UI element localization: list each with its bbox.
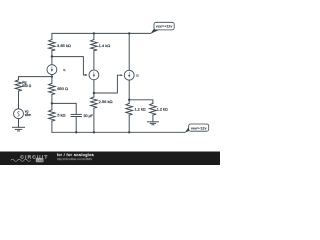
node rail col2 xyxy=(93,131,95,133)
wire col3 below F2 xyxy=(128,80,130,103)
footer bar xyxy=(0,152,220,166)
footer logo LAB xyxy=(36,158,44,162)
svg-text:5 kΩ: 5 kΩ xyxy=(57,113,65,118)
node col1 left join xyxy=(51,76,53,78)
resistor R6 1.2k zigzag xyxy=(126,103,133,115)
wire col1 650 to junction xyxy=(51,95,53,110)
voltage source V1 vg sine circle xyxy=(14,109,24,119)
wire bottom rail xyxy=(52,131,185,133)
node rail col3 xyxy=(128,131,130,133)
wire top rail xyxy=(52,33,150,39)
wire col2 bottom xyxy=(93,108,95,132)
ground under vg xyxy=(13,127,25,131)
svg-text:1.2 kΩ: 1.2 kΩ xyxy=(157,107,168,111)
svg-text:vee=-12v: vee=-12v xyxy=(191,126,208,130)
wire col2 below F1 xyxy=(93,80,95,97)
node col1 cap tap xyxy=(51,102,53,104)
wire col2 R2 to F1 xyxy=(93,51,95,70)
wire cap bottom xyxy=(75,117,77,133)
wire col2 top xyxy=(93,33,95,39)
svg-text:1.2 kΩ: 1.2 kΩ xyxy=(135,107,146,111)
wire R7 to ground xyxy=(152,115,154,122)
wire left branch horizontal xyxy=(19,77,52,80)
arrowhead into F2 xyxy=(121,74,123,76)
dependent source F2 circle xyxy=(124,70,134,80)
sine squiggle inside V1 xyxy=(18,111,20,116)
node rail cap xyxy=(75,131,77,133)
resistor R3 650 zigzag xyxy=(49,83,56,94)
node top col3 xyxy=(128,32,130,34)
wire col1 R1 to I1 xyxy=(51,51,53,65)
wire control path to F1 xyxy=(52,57,86,75)
junction dots xyxy=(51,32,131,133)
resistor R7 1.2k zigzag xyxy=(150,103,157,115)
flag vee=-12v xyxy=(185,124,209,133)
wire col1 below I1 xyxy=(51,75,53,84)
node top col2 xyxy=(93,32,95,34)
resistor Rg 600 zigzag xyxy=(15,80,22,91)
svg-text:LAB: LAB xyxy=(37,159,44,163)
wire Rg to vg xyxy=(18,91,20,109)
flag vcc=+12v xyxy=(150,22,174,34)
arrow inside F2 xyxy=(128,72,130,78)
wire col1 bottom xyxy=(51,121,53,132)
wire control path to F2 xyxy=(94,75,121,93)
arrowhead into F1 xyxy=(85,74,87,76)
dependent source F1 circle xyxy=(89,70,99,80)
ground under R7 xyxy=(147,122,158,125)
svg-text:50 µF: 50 µF xyxy=(84,114,94,118)
svg-text:i1: i1 xyxy=(63,68,66,72)
capacitor C1 50uF plates xyxy=(71,114,81,116)
wire vg to ground xyxy=(18,119,20,128)
resistor R1 3.85k zigzag xyxy=(49,40,56,51)
resistor R4 5k zigzag xyxy=(49,110,56,121)
svg-text:2.56 kΩ: 2.56 kΩ xyxy=(99,99,113,104)
node col3 below F2 xyxy=(128,99,130,101)
svg-text:i3: i3 xyxy=(136,74,139,78)
arrow inside F1 xyxy=(93,72,95,78)
svg-text:650 Ω: 650 Ω xyxy=(57,86,68,91)
footer logo squiggle xyxy=(11,159,31,161)
wire col3 top xyxy=(128,33,130,70)
resistor R5 2.56k zigzag xyxy=(91,97,98,108)
svg-text:600 Ω: 600 Ω xyxy=(22,84,31,88)
svg-text:3.85 kΩ: 3.85 kΩ xyxy=(57,43,71,48)
svg-text:vcc=+12v: vcc=+12v xyxy=(156,25,174,29)
wire col4 top link xyxy=(129,100,153,104)
svg-text:http://circuitlab.com/c4fs8t: http://circuitlab.com/c4fs8t xyxy=(57,157,92,161)
node col1 below R1 xyxy=(51,55,53,57)
wire col3 bottom xyxy=(128,115,130,132)
resistor R2 1.4k zigzag xyxy=(91,40,98,51)
labels xyxy=(22,43,168,118)
svg-text:1.4 kΩ: 1.4 kΩ xyxy=(99,43,111,48)
wire cap branch xyxy=(52,103,76,114)
svg-text:sine: sine xyxy=(25,113,31,117)
arrow inside I1 xyxy=(51,66,53,72)
current source I1 circle xyxy=(47,65,57,75)
node col2 below F1 xyxy=(93,92,95,94)
